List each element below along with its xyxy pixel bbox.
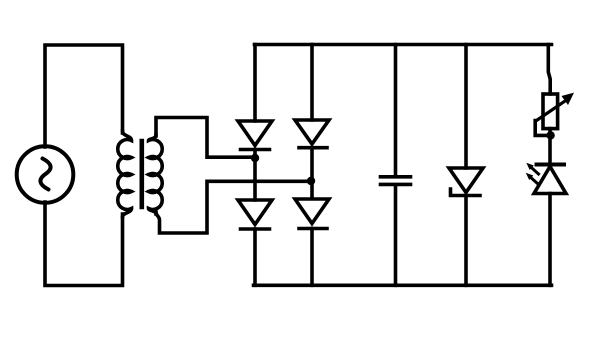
transformer T1 secondary winding L2 xyxy=(149,135,163,214)
diode D1 (bridge upper-left) xyxy=(238,45,272,159)
wire: AC source top to transformer primary top xyxy=(45,45,123,147)
wire: top rail (+) xyxy=(255,43,552,47)
diode D3 (bridge lower-left) xyxy=(238,158,272,285)
wire: rheostat to LED xyxy=(548,129,552,163)
transformer T1 primary winding L1 xyxy=(118,131,132,217)
wire: secondary top terminal to bridge node A xyxy=(156,118,253,158)
wire: AC source bottom to transformer primary bottom xyxy=(45,202,123,286)
capacitor C1 xyxy=(381,45,411,286)
LED D5 xyxy=(526,163,566,194)
wire: bottom rail (-) xyxy=(254,283,552,287)
wire: secondary bottom terminal to bridge node B xyxy=(156,181,309,233)
diode D4 (bridge lower-right) xyxy=(295,181,329,285)
junction node A xyxy=(251,154,259,162)
zener diode Z1 xyxy=(449,45,483,286)
rheostat R1 (variable resistor) xyxy=(535,45,574,136)
diode D2 (bridge upper-right) xyxy=(295,45,329,182)
AC source V1 xyxy=(17,146,74,203)
transformer T1 core xyxy=(140,141,145,207)
wire: LED to bottom rail xyxy=(548,194,552,286)
junction node B xyxy=(307,177,315,185)
junction: rheostat wiper tie xyxy=(546,131,554,139)
